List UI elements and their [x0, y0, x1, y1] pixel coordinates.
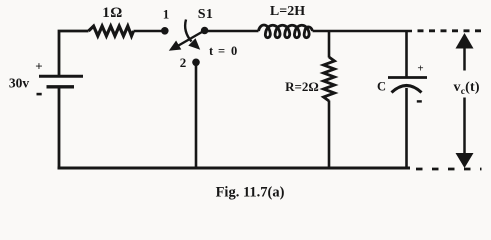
svg-text:S1: S1 [198, 7, 213, 22]
svg-text:L=2H: L=2H [270, 4, 305, 19]
svg-text:+: + [35, 59, 42, 74]
svg-text:=: = [218, 44, 225, 58]
svg-text:C: C [377, 79, 386, 93]
svg-text:t: t [209, 44, 214, 58]
svg-text:1: 1 [163, 7, 170, 22]
svg-text:2: 2 [180, 55, 187, 70]
svg-text:Fig. 11.7(a): Fig. 11.7(a) [216, 184, 285, 200]
svg-text:30v: 30v [9, 75, 30, 90]
svg-text:0: 0 [231, 44, 237, 58]
svg-text:R=2Ω: R=2Ω [285, 79, 319, 94]
svg-text:+: + [417, 63, 423, 75]
svg-text:1Ω: 1Ω [102, 5, 123, 21]
svg-text:vc(t): vc(t) [454, 80, 480, 97]
